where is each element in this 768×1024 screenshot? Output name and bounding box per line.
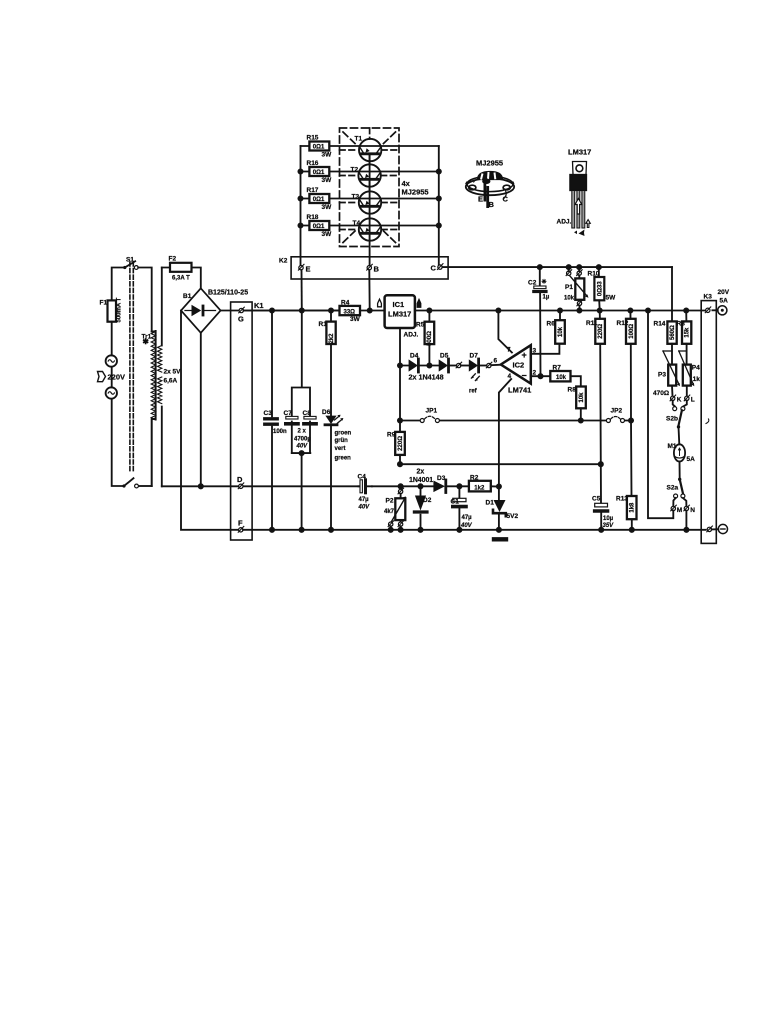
svg-text:JP2: JP2	[611, 408, 623, 415]
svg-text:40V: 40V	[296, 444, 309, 450]
svg-text:100Ω: 100Ω	[629, 324, 635, 339]
svg-text:3W: 3W	[350, 316, 361, 323]
svg-text:3W: 3W	[322, 152, 333, 159]
terminal K2 B	[367, 264, 373, 270]
svg-text:vert: vert	[335, 446, 346, 452]
capacitor C1	[458, 486, 460, 530]
svg-text:B: B	[489, 200, 495, 209]
svg-text:C: C	[503, 195, 509, 204]
IC2 pin4 wire	[499, 379, 511, 487]
contact circle	[486, 362, 492, 368]
svg-text:1k: 1k	[693, 376, 701, 383]
D rail junction dots	[399, 484, 403, 488]
svg-text:ADJ.: ADJ.	[557, 219, 572, 226]
svg-text:0Ω1: 0Ω1	[313, 170, 325, 176]
meter M1	[674, 444, 685, 461]
wire K2 B down to mid rail	[368, 270, 370, 311]
svg-text:+: +	[522, 350, 527, 360]
transformer Tr1 primary winding	[152, 331, 156, 486]
svg-text:F: F	[238, 519, 243, 528]
mid rail IC1 output to K3	[415, 310, 706, 312]
wire K2 E down to mid rail	[301, 270, 303, 311]
svg-text:B1: B1	[183, 293, 192, 300]
resistor R2	[469, 481, 491, 492]
svg-text:2x 5V: 2x 5V	[164, 369, 182, 376]
resistor R5	[428, 311, 430, 366]
svg-text:N: N	[690, 507, 695, 514]
svg-text:35V: 35V	[603, 523, 615, 529]
resistor R17	[301, 198, 439, 200]
terminal K1 D	[238, 483, 244, 489]
svg-text:3W: 3W	[322, 231, 333, 238]
svg-text:4700µ: 4700µ	[294, 436, 311, 442]
svg-text:R4: R4	[341, 300, 350, 307]
svg-text:D6: D6	[322, 409, 331, 416]
diode D3	[401, 485, 434, 487]
transistor T2	[358, 164, 380, 186]
svg-text:47µ: 47µ	[462, 515, 473, 521]
svg-text:4: 4	[508, 373, 512, 380]
svg-text:1k8: 1k8	[630, 502, 636, 513]
svg-text:5A: 5A	[720, 297, 729, 304]
resistor R18	[301, 225, 439, 227]
junction secondary/bridge D rail	[199, 484, 203, 488]
terminals M N	[671, 505, 677, 511]
left emitter bus	[300, 146, 302, 266]
connector K3 box	[701, 301, 716, 544]
svg-text:green: green	[335, 456, 352, 462]
svg-text:P3: P3	[658, 372, 666, 379]
output socket +	[718, 306, 727, 315]
svg-text:1N4001: 1N4001	[409, 477, 433, 484]
svg-text:5A: 5A	[687, 456, 696, 463]
wire bridge + output to K1 G	[221, 310, 340, 312]
svg-text:R9: R9	[387, 432, 396, 439]
svg-text:D: D	[237, 475, 243, 484]
junction dots top rail	[538, 265, 542, 269]
resistor R4	[340, 306, 361, 315]
mains isolation dashed line	[129, 262, 131, 471]
contact circle	[456, 362, 462, 368]
svg-text:K3: K3	[704, 294, 713, 301]
IC2 pin3 wire	[531, 344, 560, 354]
svg-text:C8: C8	[303, 410, 312, 417]
terminal K1 F	[238, 526, 244, 532]
arrow at IC1 input	[378, 299, 382, 307]
svg-text:D4: D4	[410, 353, 419, 360]
svg-text:P1: P1	[565, 284, 573, 291]
op-amp IC2	[501, 345, 531, 383]
IC2 pin7 wire	[498, 311, 512, 353]
svg-text:R14: R14	[654, 321, 666, 328]
svg-text:15k: 15k	[685, 327, 691, 338]
svg-text:K: K	[677, 397, 682, 404]
svg-text:0Ω1: 0Ω1	[313, 197, 325, 203]
mains plug arrow	[98, 372, 106, 382]
trimmer P4	[686, 344, 688, 365]
mid-low rail R9 to R11/C5	[400, 463, 601, 465]
svg-text:5W: 5W	[606, 295, 617, 302]
svg-text:D7: D7	[470, 353, 479, 360]
svg-text:R8: R8	[568, 387, 577, 394]
transistor T1	[359, 139, 381, 161]
svg-text:R12: R12	[617, 320, 629, 327]
svg-text:10µ: 10µ	[603, 516, 614, 522]
svg-text:10k: 10k	[558, 326, 564, 337]
svg-text:G: G	[238, 315, 244, 324]
resistor R7	[550, 371, 570, 381]
svg-text:R17: R17	[307, 187, 319, 194]
svg-text:MJ2955: MJ2955	[402, 188, 429, 197]
resistor R16	[301, 171, 439, 173]
svg-text:B: B	[374, 265, 380, 274]
base bus	[369, 154, 371, 266]
resistor R12	[629, 311, 632, 421]
capacitor C7 plates	[286, 416, 298, 419]
svg-text:10k: 10k	[564, 296, 575, 302]
capacitors C7 C8 bracket	[292, 311, 311, 530]
svg-text:−: −	[522, 371, 527, 381]
capacitor C2	[539, 267, 542, 376]
diode D2	[420, 486, 422, 530]
svg-text:MJ2955: MJ2955	[476, 159, 503, 168]
svg-text:220Ω: 220Ω	[398, 436, 404, 451]
svg-text:T1: T1	[355, 136, 363, 143]
icon LM317 package	[570, 162, 590, 237]
svg-text:3W: 3W	[322, 204, 333, 211]
svg-text:S1: S1	[126, 257, 134, 264]
svg-text:M1: M1	[668, 443, 677, 450]
svg-text:3: 3	[533, 348, 537, 355]
diode D4	[409, 359, 418, 371]
trimmer P3	[671, 344, 673, 365]
resistor R15	[301, 145, 439, 147]
svg-text:C5: C5	[592, 496, 601, 503]
svg-text:7: 7	[507, 347, 511, 354]
svg-text:2: 2	[533, 370, 537, 377]
svg-text:C1: C1	[451, 499, 460, 506]
transistor T4	[359, 218, 381, 240]
svg-text:R13: R13	[616, 496, 628, 503]
jumper JP2 line	[581, 420, 631, 422]
svg-text:LM317: LM317	[388, 310, 411, 319]
capacitor C5	[600, 464, 602, 530]
svg-text:6,6A: 6,6A	[164, 378, 178, 385]
svg-text:6,3A T: 6,3A T	[172, 276, 190, 282]
svg-text:R16: R16	[307, 160, 319, 167]
svg-text:JP1: JP1	[426, 408, 438, 415]
mid rail segment K1G to R4	[244, 310, 340, 312]
svg-text:10k: 10k	[579, 392, 585, 403]
svg-text:3W: 3W	[322, 177, 333, 184]
svg-text:1k2: 1k2	[474, 486, 485, 492]
svg-text:D3: D3	[437, 475, 446, 482]
icon MJ2955 package	[466, 172, 515, 209]
svg-text:100n: 100n	[273, 429, 287, 435]
resistor R1 and LED D6 chain	[330, 311, 332, 530]
svg-text:R15: R15	[307, 135, 319, 142]
cable squiggle	[706, 419, 709, 424]
svg-text:C3: C3	[264, 410, 273, 417]
svg-text:470Ω: 470Ω	[653, 390, 669, 397]
svg-text:2 x: 2 x	[298, 429, 307, 435]
resistor R6	[559, 311, 561, 321]
terminal K2 C	[437, 264, 443, 270]
connector K1 box	[231, 302, 253, 540]
zener D1	[498, 487, 500, 530]
svg-text:M: M	[677, 507, 682, 514]
svg-text:D2: D2	[423, 497, 432, 504]
switch S2b with throws	[673, 401, 687, 407]
svg-text:IC2: IC2	[513, 361, 525, 370]
svg-text:33Ω: 33Ω	[344, 309, 356, 315]
svg-text:R7: R7	[553, 365, 562, 372]
transistor T3	[359, 191, 381, 213]
svg-text:220V: 220V	[108, 373, 126, 382]
svg-text:0Ω1: 0Ω1	[313, 145, 325, 151]
resistor R9	[399, 421, 401, 465]
wire N to bottom rail	[685, 511, 687, 530]
LED D6	[325, 416, 336, 424]
svg-text:2x: 2x	[417, 469, 425, 476]
terminal K3 +	[705, 307, 711, 313]
svg-text:✳: ✳	[542, 279, 547, 286]
switch S1 (upper pole)	[125, 261, 135, 267]
svg-text:P4: P4	[692, 365, 700, 372]
svg-text:R5: R5	[416, 322, 425, 329]
svg-text:ADJ.: ADJ.	[404, 332, 419, 339]
wire mains left vertical with F1	[112, 268, 125, 487]
trimmer P2	[400, 486, 402, 489]
regulator IC1	[385, 295, 415, 328]
svg-text:T3: T3	[352, 194, 360, 201]
connector K2 box	[291, 257, 448, 279]
svg-text:4k7: 4k7	[384, 509, 395, 515]
svg-text:grün: grün	[335, 438, 349, 444]
svg-text:✱: ✱	[143, 337, 150, 346]
wire M to meter return	[648, 311, 673, 519]
wire bridge AC bottom to D rail	[200, 333, 202, 487]
svg-text:220Ω: 220Ω	[598, 324, 604, 339]
svg-text:R2: R2	[470, 475, 479, 482]
svg-text:IC1: IC1	[393, 300, 405, 309]
wire bridge minus to K1 F	[181, 311, 241, 530]
svg-text:C4: C4	[358, 474, 367, 481]
svg-text:20V: 20V	[718, 289, 730, 296]
svg-text:47µ: 47µ	[359, 497, 370, 503]
jumper JP1 line	[400, 420, 581, 422]
svg-text:T4: T4	[353, 220, 361, 227]
capacitor C8 plates	[304, 416, 316, 419]
AC source circle upper	[106, 355, 117, 366]
svg-text:500Ω: 500Ω	[427, 331, 433, 346]
wire top rail from K2 C	[442, 266, 672, 268]
svg-text:R3: R3	[677, 321, 686, 328]
right collector bus	[438, 146, 440, 265]
resistor R14	[667, 321, 676, 343]
svg-text:R10: R10	[588, 271, 600, 278]
wire IC1 ADJ down	[400, 328, 409, 421]
switch S2a with throws	[678, 478, 681, 481]
svg-text:0Ω1: 0Ω1	[313, 224, 325, 230]
svg-text:E: E	[306, 265, 311, 274]
svg-text:R11: R11	[586, 320, 598, 327]
bridge rectifier B1	[181, 288, 221, 333]
svg-text:groen: groen	[335, 430, 352, 436]
svg-text:LM741: LM741	[508, 386, 531, 395]
LED D7	[469, 359, 478, 371]
capacitor C4	[359, 485, 372, 487]
bottom rail	[243, 529, 706, 531]
arrow at IC1 output (filled)	[417, 299, 421, 308]
svg-text:6: 6	[494, 358, 498, 365]
svg-text:K2: K2	[279, 258, 288, 265]
svg-text:10k: 10k	[556, 375, 567, 381]
terminal K2 E	[298, 264, 304, 270]
fuse F1	[108, 300, 117, 321]
svg-text:D5: D5	[440, 353, 449, 360]
wire secondary bottom / D rail to K1 D	[162, 485, 359, 487]
terminal K1 G	[239, 307, 245, 313]
svg-text:ref: ref	[469, 389, 478, 395]
dashed package outline 4x MJ2955	[340, 128, 400, 247]
svg-text:B125/110-25: B125/110-25	[208, 290, 248, 297]
terminal K3 -	[707, 526, 713, 532]
svg-text:2k2: 2k2	[329, 333, 335, 344]
svg-text:5V2: 5V2	[507, 513, 519, 520]
svg-text:2x 1N4148: 2x 1N4148	[409, 373, 444, 382]
svg-text:P2: P2	[386, 498, 394, 505]
svg-text:40V: 40V	[460, 523, 473, 529]
fuse F2	[170, 263, 192, 272]
IC2 pin2 wire	[531, 375, 551, 377]
capacitor C3	[271, 311, 273, 530]
trimmer P1	[566, 270, 572, 276]
svg-text:E: E	[478, 195, 483, 204]
svg-text:D1: D1	[486, 500, 495, 507]
svg-text:560Ω: 560Ω	[670, 325, 676, 340]
svg-text:LM317: LM317	[568, 148, 591, 157]
output socket -	[718, 524, 727, 533]
svg-text:R18: R18	[307, 214, 319, 221]
switch S1 (lower pole)	[124, 478, 134, 486]
svg-text:T2: T2	[351, 167, 359, 174]
resistor R3	[685, 311, 687, 322]
wire S1 to transformer primary	[138, 268, 152, 332]
svg-text:1µ: 1µ	[543, 295, 550, 301]
svg-text:S2b: S2b	[666, 416, 678, 423]
diode D5	[439, 359, 448, 371]
svg-text:F1: F1	[100, 300, 108, 307]
svg-text:F2: F2	[169, 256, 177, 263]
wire top rail corner down to R14	[671, 267, 673, 321]
resistor R13	[630, 421, 633, 530]
svg-text:K1: K1	[254, 301, 264, 310]
svg-text:C: C	[431, 264, 437, 273]
svg-text:500mA T: 500mA T	[116, 297, 122, 322]
resistor R8	[576, 387, 586, 409]
resistor R11	[600, 311, 601, 465]
wire secondary top to F2	[162, 268, 201, 289]
resistor R10 shunt	[598, 267, 601, 310]
svg-text:R6: R6	[547, 321, 556, 328]
svg-text:S2a: S2a	[667, 485, 679, 492]
svg-text:R1: R1	[319, 321, 328, 328]
transformer Tr1 secondary winding	[161, 268, 163, 487]
AC source circle lower	[106, 387, 117, 398]
svg-text:L: L	[691, 397, 695, 404]
svg-text:0Ω33: 0Ω33	[598, 281, 604, 296]
svg-text:C7: C7	[284, 410, 293, 417]
svg-text:40V: 40V	[358, 505, 371, 511]
ground bar	[494, 537, 506, 541]
svg-text:C2: C2	[528, 280, 537, 287]
